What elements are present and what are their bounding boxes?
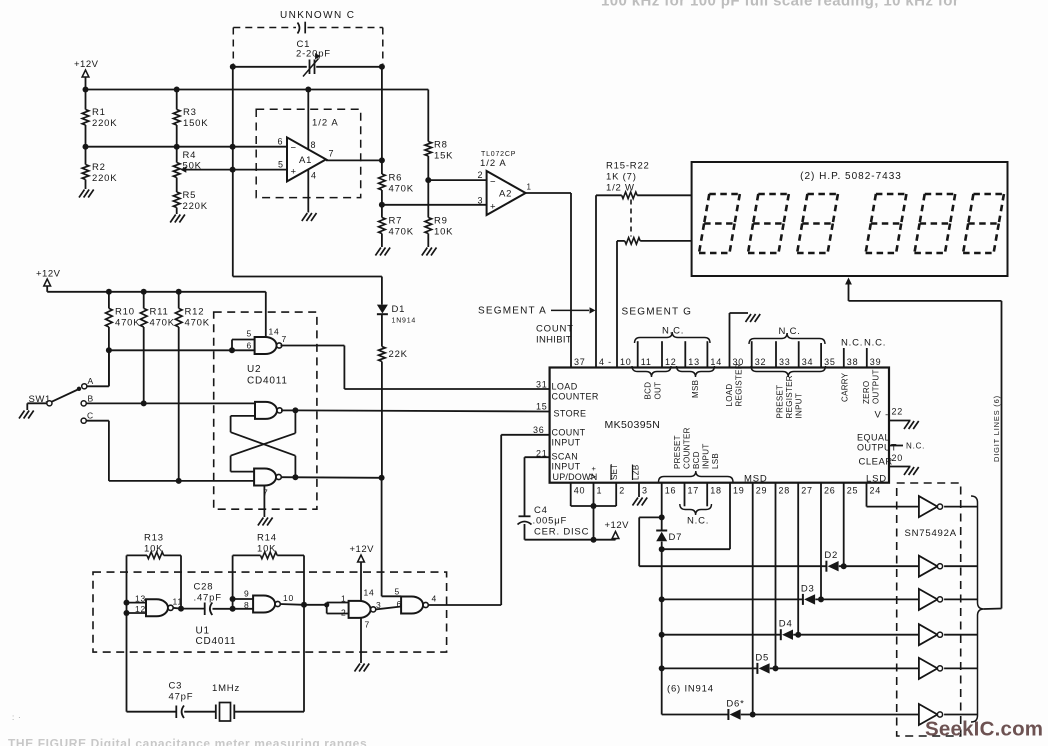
dashed resistor continuation bbox=[630, 200, 632, 237]
svg-text:CER. DISC: CER. DISC bbox=[534, 527, 589, 538]
wire R6-R7 bbox=[381, 190, 383, 218]
wire D4 to pin27 line bbox=[793, 634, 919, 636]
brace preset counter pins 16-19 bbox=[659, 471, 734, 482]
dashed box 1/2A (A1) bbox=[256, 109, 361, 197]
wire segmentG row bbox=[617, 240, 625, 242]
diode D5 bbox=[755, 652, 769, 674]
buffer 6 (SN75492A) bbox=[919, 704, 943, 725]
wire pin6 row bbox=[86, 146, 288, 148]
wire 22K down bbox=[381, 362, 383, 478]
wire D7 loop bbox=[639, 517, 662, 566]
resistor R10 bbox=[106, 292, 141, 329]
power +12V (U1) bbox=[350, 544, 375, 601]
svg-text:+: + bbox=[592, 464, 597, 473]
pin 13 number bbox=[688, 357, 700, 367]
wire B row to U2b bbox=[86, 402, 254, 404]
svg-text:10: 10 bbox=[283, 593, 294, 603]
pin 3 label A2 bbox=[478, 196, 484, 206]
label UNKNOWN C bbox=[280, 10, 355, 21]
svg-text:REGISTER: REGISTER bbox=[735, 363, 744, 406]
svg-text:5: 5 bbox=[278, 160, 284, 170]
wire R9-gnd bbox=[427, 234, 429, 248]
svg-text:37: 37 bbox=[574, 357, 586, 367]
wire D2 to pin25 line bbox=[839, 565, 919, 567]
pin 33 number bbox=[779, 357, 791, 367]
svg-text:SCAN: SCAN bbox=[552, 452, 579, 462]
svg-text:8: 8 bbox=[244, 600, 250, 610]
pin 11 stub bbox=[637, 341, 639, 367]
svg-text:V: V bbox=[588, 473, 598, 479]
ground pin3 bbox=[633, 498, 648, 506]
svg-text:470K: 470K bbox=[115, 318, 140, 329]
node pin16-D7loop bbox=[659, 514, 665, 520]
wire R11 leg bbox=[143, 327, 145, 403]
node pin6-vert bbox=[230, 144, 236, 150]
label LOAD COUNTER bbox=[552, 382, 599, 402]
wire U2a pin14 bbox=[265, 292, 267, 337]
wire A2 out to pin37 bbox=[525, 193, 571, 368]
wire U1b out to U1c bbox=[304, 602, 349, 613]
svg-text:33: 33 bbox=[779, 357, 791, 367]
svg-text:INPUT: INPUT bbox=[552, 438, 581, 448]
op-amp A1 bbox=[287, 137, 326, 181]
label MSB bbox=[691, 380, 700, 398]
pin 35 stub bbox=[820, 343, 822, 368]
wire rail to R8 bbox=[427, 90, 429, 142]
svg-text:C: C bbox=[87, 411, 94, 421]
wire top rail bbox=[86, 89, 429, 91]
wire pin4 segment A bbox=[595, 195, 597, 367]
svg-text:7: 7 bbox=[365, 620, 371, 630]
label C4 bbox=[534, 505, 548, 516]
svg-text:25: 25 bbox=[847, 486, 859, 496]
svg-text:U1: U1 bbox=[196, 626, 210, 637]
label PRESET REGISTER INPUT bbox=[776, 375, 804, 418]
wire pin25 drop bbox=[843, 483, 845, 567]
svg-text:A2: A2 bbox=[499, 189, 512, 200]
svg-text:10K: 10K bbox=[257, 544, 276, 555]
pin 16 number (bottom) bbox=[665, 486, 677, 496]
wire pin30 to gnd bbox=[730, 313, 749, 368]
svg-text:1: 1 bbox=[341, 594, 347, 604]
pin 30 number bbox=[733, 357, 745, 367]
wire D3 to pin26 line bbox=[815, 598, 919, 600]
label SW1 bbox=[29, 394, 51, 405]
pin 36 number bbox=[533, 425, 545, 435]
label N.C. (17-18) bbox=[687, 516, 709, 527]
node R1-R2 bbox=[83, 144, 89, 150]
wire buffer 4 out bbox=[944, 634, 977, 636]
node U2b out bbox=[292, 407, 298, 413]
dashed box U2 bbox=[214, 312, 317, 509]
wire buffer 5 out bbox=[944, 667, 977, 669]
svg-text:MSD: MSD bbox=[744, 474, 768, 485]
ground below R5 bbox=[170, 215, 185, 223]
label N.C. (11-14) bbox=[662, 326, 684, 337]
ground pin22 bbox=[904, 421, 919, 429]
label CER. DISC bbox=[534, 527, 589, 538]
svg-text:CARRY: CARRY bbox=[841, 372, 850, 402]
svg-text:D3: D3 bbox=[801, 583, 815, 594]
node U1b out junction bbox=[301, 602, 307, 608]
contact C bbox=[81, 411, 94, 424]
svg-text:28: 28 bbox=[779, 486, 791, 496]
svg-text:SEGMENT G: SEGMENT G bbox=[622, 307, 693, 318]
label BCD OUT bbox=[644, 382, 663, 400]
svg-text:R4: R4 bbox=[183, 150, 197, 161]
pin 14 stub bbox=[706, 341, 708, 367]
svg-text:C3: C3 bbox=[169, 681, 183, 692]
buffer 4 (SN75492A) bbox=[919, 624, 943, 645]
ground below R7 bbox=[375, 248, 390, 256]
wire D1-22K bbox=[381, 314, 383, 346]
svg-text:SEGMENT A: SEGMENT A bbox=[478, 306, 547, 317]
wire pin20 bbox=[889, 466, 911, 468]
brace N.C. pins 11-14 bbox=[635, 332, 711, 343]
label N.C. (equal output) bbox=[906, 442, 925, 451]
svg-text:R3: R3 bbox=[183, 107, 197, 118]
pin 10 number bbox=[620, 357, 632, 367]
label C3 value bbox=[169, 692, 194, 703]
svg-text:LSD: LSD bbox=[866, 474, 887, 485]
svg-text:13: 13 bbox=[688, 357, 700, 367]
pin 40 number (bottom) bbox=[574, 486, 586, 496]
faint mark bottom left bbox=[12, 713, 22, 722]
svg-text:BCD: BCD bbox=[644, 382, 653, 400]
node R10-row bbox=[106, 347, 112, 353]
pin 4 label U1d bbox=[432, 594, 438, 604]
pin 22 number bbox=[892, 407, 904, 417]
label V- bbox=[875, 410, 890, 421]
pin 31 number bbox=[536, 380, 548, 390]
wire pin29 drop bbox=[752, 483, 754, 715]
pin 6 label U1d bbox=[397, 599, 403, 609]
7-segment digit 6 bbox=[963, 194, 1004, 253]
pin 1 number (bottom) bbox=[597, 486, 603, 496]
svg-text:COUNT: COUNT bbox=[536, 324, 574, 335]
wire pin19 stub bbox=[729, 483, 731, 550]
svg-text:N.C.: N.C. bbox=[841, 338, 863, 349]
pot wiper arrow R4 bbox=[180, 166, 232, 172]
svg-text:+: + bbox=[291, 167, 297, 178]
svg-text:N.C.: N.C. bbox=[662, 326, 684, 337]
svg-text:R7: R7 bbox=[389, 216, 403, 227]
wire pin3 stub bbox=[638, 483, 640, 497]
svg-text:R10: R10 bbox=[115, 307, 135, 318]
node U2c out bbox=[292, 474, 298, 480]
label CLEAR bbox=[859, 457, 893, 468]
svg-text:10: 10 bbox=[620, 357, 632, 367]
node U1b pin8 bbox=[230, 606, 236, 612]
wire R3-R4 bbox=[176, 125, 178, 163]
op-amp A2 bbox=[487, 171, 526, 215]
pin 24 number (bottom) bbox=[870, 486, 882, 496]
resistor R1 bbox=[82, 90, 117, 130]
node R6R7-pin3row bbox=[379, 202, 385, 208]
svg-text:C28: C28 bbox=[194, 582, 214, 593]
gate U1d bbox=[401, 597, 428, 614]
pin 8 label U1b bbox=[244, 600, 250, 610]
svg-text:D5: D5 bbox=[755, 652, 769, 663]
svg-text:10K: 10K bbox=[434, 227, 453, 238]
wire U2b out bbox=[281, 409, 295, 411]
wire C1 row bbox=[233, 66, 382, 68]
wire U1a out bbox=[173, 607, 205, 610]
label CD4011 (U1) bbox=[196, 636, 237, 647]
label PRESET COUNTER BCD INPUT LSB bbox=[673, 427, 720, 469]
label R14 bbox=[257, 533, 277, 555]
svg-text:1/2 A: 1/2 A bbox=[312, 118, 339, 129]
wire R2-gnd bbox=[85, 180, 87, 190]
svg-text:16: 16 bbox=[665, 486, 677, 496]
svg-text:R13: R13 bbox=[144, 533, 164, 544]
diode D3 bbox=[801, 583, 815, 605]
pin 39 number bbox=[870, 357, 882, 367]
switch lever bbox=[52, 387, 82, 402]
svg-text:COUNTER: COUNTER bbox=[552, 392, 599, 402]
buffer 3 (SN75492A) bbox=[919, 589, 943, 610]
node U2a pins5-6 bbox=[229, 347, 235, 353]
wire C to U2c bbox=[86, 421, 254, 481]
svg-text:20: 20 bbox=[892, 453, 904, 463]
node rail-A1supply bbox=[305, 87, 311, 93]
node rail2-R10 bbox=[106, 289, 112, 295]
resistor R9 bbox=[425, 216, 453, 238]
wire pin21 row bbox=[525, 457, 550, 516]
svg-text:THE FIGURE Digital capacitanc: THE FIGURE Digital capacitance meter mea… bbox=[8, 737, 367, 746]
svg-text:11: 11 bbox=[641, 357, 652, 367]
svg-text:2: 2 bbox=[341, 608, 347, 618]
7-segment digit 2 bbox=[748, 194, 789, 253]
wire C28 to U1b bbox=[213, 608, 233, 610]
gate U2a bbox=[255, 337, 282, 354]
wire U1b inputs bbox=[233, 599, 254, 609]
svg-text:24: 24 bbox=[870, 486, 882, 496]
pin 5 label A1 bbox=[278, 160, 284, 170]
label MK50395N bbox=[605, 419, 661, 431]
svg-text:4: 4 bbox=[432, 594, 438, 604]
label 1/2 A (A2) bbox=[480, 158, 507, 169]
dashed box SN75492A bbox=[897, 483, 961, 736]
wire R12 leg bbox=[178, 327, 180, 481]
svg-text:1K (7): 1K (7) bbox=[606, 172, 637, 183]
label C28 value bbox=[194, 593, 222, 604]
pin 12 stub bbox=[661, 341, 663, 367]
svg-text:22K: 22K bbox=[389, 349, 408, 360]
svg-text:10K: 10K bbox=[144, 544, 163, 555]
pin 12 number bbox=[665, 357, 677, 367]
wire D6* to pin29 line bbox=[741, 714, 919, 716]
contact A bbox=[82, 376, 94, 389]
wire U2c pin7 bbox=[263, 486, 265, 518]
label SEGMENT A bbox=[478, 306, 547, 317]
ground below R9 bbox=[422, 248, 437, 256]
svg-text:D1: D1 bbox=[392, 304, 406, 315]
svg-text:6: 6 bbox=[247, 341, 253, 351]
pin 25 number (bottom) bbox=[847, 486, 859, 496]
svg-text:29: 29 bbox=[756, 486, 768, 496]
svg-text:PRESET: PRESET bbox=[776, 385, 785, 419]
pin 38 stub bbox=[843, 348, 845, 368]
arrow into display bottom bbox=[845, 278, 852, 301]
wire U2a out bbox=[281, 346, 345, 390]
svg-text:D2: D2 bbox=[824, 550, 838, 561]
wire row2 from D7 loop bbox=[639, 565, 826, 567]
label CD4011 (U2) bbox=[247, 376, 288, 387]
svg-text:38: 38 bbox=[847, 357, 859, 367]
A1 minus sign bbox=[291, 143, 297, 154]
svg-text:6: 6 bbox=[278, 137, 284, 147]
label DIGIT LINES (6) bbox=[992, 395, 1001, 462]
svg-text:17: 17 bbox=[688, 486, 700, 496]
arrow segment A bbox=[551, 307, 596, 313]
wire osc bottom left bbox=[127, 613, 177, 712]
svg-text:INPUT: INPUT bbox=[795, 393, 804, 419]
svg-text:PRESET: PRESET bbox=[673, 435, 682, 469]
resistor R2 bbox=[82, 162, 117, 184]
capacitor C4 bbox=[518, 516, 532, 539]
resistor R3 bbox=[173, 90, 208, 130]
7-segment digit 1 bbox=[699, 194, 740, 253]
wire R22 to display bbox=[640, 240, 691, 242]
label CARRY bbox=[841, 372, 850, 402]
brace BCD OUT bbox=[632, 366, 671, 377]
svg-text:31: 31 bbox=[536, 380, 548, 390]
pin 6 label U2a bbox=[247, 341, 253, 351]
node pin1 bus bbox=[591, 503, 597, 509]
wire U2a pin5 stub bbox=[232, 340, 255, 351]
svg-text:(6) IN914: (6) IN914 bbox=[667, 684, 714, 695]
pin 15 number bbox=[536, 402, 548, 412]
label (2) H.P. 5082-7433 bbox=[800, 171, 902, 182]
svg-text:COUNTER: COUNTER bbox=[683, 427, 692, 469]
wire pin5 row bbox=[233, 169, 287, 171]
node R3R4-pin6row bbox=[174, 144, 180, 150]
wire inputnet to D1 bbox=[233, 277, 382, 305]
svg-text:5: 5 bbox=[247, 329, 253, 339]
svg-text:V -: V - bbox=[875, 410, 890, 421]
pin 35 number bbox=[824, 357, 836, 367]
dashed box U1 bbox=[93, 572, 447, 652]
gate U1c bbox=[349, 601, 376, 618]
pin 7 label U2a bbox=[282, 334, 288, 344]
A1 plus sign bbox=[291, 167, 297, 178]
wire buffer 6 out bbox=[944, 714, 977, 716]
label 1N914 (D1) bbox=[392, 318, 417, 325]
svg-text:5: 5 bbox=[395, 587, 401, 597]
svg-text:N.C.: N.C. bbox=[687, 516, 709, 527]
svg-text:47pF: 47pF bbox=[169, 692, 194, 703]
label C1 bbox=[297, 39, 311, 50]
pin 13 label U1a bbox=[135, 594, 146, 604]
resistor R22 (segment G) bbox=[625, 238, 640, 245]
wire pin22 bbox=[889, 420, 911, 422]
node U1b pin9 bbox=[230, 596, 236, 602]
svg-text:: ·: : · bbox=[12, 713, 22, 722]
wire pin27 drop bbox=[797, 483, 799, 635]
svg-text:220K: 220K bbox=[92, 118, 117, 129]
resistor R15 (segment A) bbox=[622, 192, 637, 199]
svg-text:470K: 470K bbox=[150, 318, 175, 329]
wire R8-R9 bbox=[427, 156, 429, 218]
svg-text:R5: R5 bbox=[183, 190, 197, 201]
svg-text:14: 14 bbox=[269, 327, 280, 337]
svg-text:36: 36 bbox=[533, 425, 545, 435]
svg-text:15: 15 bbox=[536, 402, 548, 412]
svg-text:4 -: 4 - bbox=[599, 357, 612, 367]
node rail2-R12 bbox=[176, 289, 182, 295]
gate U1a bbox=[146, 599, 173, 616]
label 1K (7) bbox=[606, 172, 637, 183]
svg-text:UNKNOWN C: UNKNOWN C bbox=[280, 10, 355, 21]
pin 5 label U1d bbox=[395, 587, 401, 597]
buffer 1 (SN75492A) bbox=[919, 496, 943, 517]
svg-text:−: − bbox=[291, 143, 297, 154]
faint bottom caption bbox=[8, 737, 367, 746]
svg-text:220K: 220K bbox=[183, 201, 208, 212]
wire U1d pin5 bbox=[382, 595, 402, 597]
gate U1b bbox=[253, 596, 280, 613]
label A2 bbox=[499, 189, 512, 200]
wire U1c pin7 bbox=[360, 618, 362, 663]
node pin16-D7 bottom bbox=[659, 546, 665, 552]
svg-text:14: 14 bbox=[364, 588, 375, 598]
power +12V (second rail) bbox=[36, 269, 61, 292]
wire D7 to pin19 bbox=[662, 548, 730, 550]
svg-text:1: 1 bbox=[597, 486, 603, 496]
node rail-R3 bbox=[174, 87, 180, 93]
wire R7-gnd bbox=[381, 234, 383, 248]
pin 32 stub bbox=[751, 341, 753, 367]
diode D2 bbox=[824, 550, 838, 572]
svg-text:100 kHz for 100 pF full scale: 100 kHz for 100 pF full scale reading, 1… bbox=[601, 0, 959, 10]
pin 37 number bbox=[574, 357, 586, 367]
svg-text:INHIBIT: INHIBIT bbox=[536, 335, 572, 346]
pin 2 number (bottom) bbox=[619, 486, 625, 496]
wire C1right down bbox=[381, 67, 383, 161]
label N.C. (32-35) bbox=[779, 326, 801, 337]
svg-text:C4: C4 bbox=[534, 505, 548, 516]
pin 5 label U2a bbox=[247, 329, 253, 339]
pin 7 label U2c bbox=[263, 488, 269, 498]
pin 39 stub bbox=[866, 348, 868, 368]
label C1 value bbox=[296, 49, 331, 60]
diode D1 bbox=[377, 304, 405, 315]
brace PRESET REGISTER INPUT bbox=[751, 366, 826, 377]
ground below R2 bbox=[79, 190, 94, 198]
svg-text:LSB: LSB bbox=[711, 453, 720, 469]
svg-text:+12V: +12V bbox=[36, 269, 61, 280]
wire row6 bbox=[662, 714, 729, 716]
watermark SeekIC.com bbox=[925, 718, 1043, 741]
capacitor (unknown, in box edge) bbox=[298, 22, 306, 34]
contact B bbox=[81, 394, 94, 407]
pin 18 number (bottom) bbox=[710, 486, 722, 496]
wire pin15 row bbox=[295, 410, 549, 411]
wire pins 40-1-2 bus bbox=[571, 483, 617, 540]
wire pin16 scan line bbox=[661, 483, 663, 715]
svg-text:D7: D7 bbox=[669, 532, 683, 543]
label UP/DOWN bbox=[553, 472, 598, 482]
svg-text:7: 7 bbox=[282, 334, 288, 344]
pin 11 number bbox=[641, 357, 652, 367]
brace N.C. pins 17-18 bbox=[680, 504, 712, 515]
wire pin24 to buffer1 bbox=[867, 483, 919, 507]
label 1MHz bbox=[212, 683, 240, 694]
wire C3 to crystal bbox=[184, 711, 216, 713]
label EQUAL OUTPUT bbox=[857, 433, 897, 453]
wire second rail bbox=[47, 291, 266, 293]
